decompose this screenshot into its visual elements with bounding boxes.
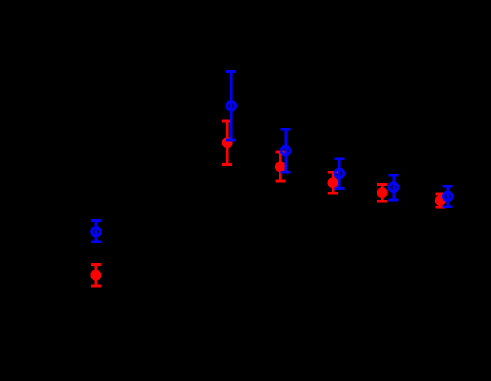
blue point 3 marker xyxy=(281,146,290,155)
red point 6 error bar xyxy=(435,194,445,207)
blue point 4 marker xyxy=(335,169,344,178)
red point 5 marker xyxy=(377,187,388,198)
red point 5 error bar xyxy=(377,185,387,202)
red point 3 error bar xyxy=(275,152,285,181)
red series: filled-circle markers with error bars xyxy=(90,121,445,286)
blue series: open-circle markers with error bars xyxy=(91,72,453,242)
red point 1 error bar xyxy=(91,264,101,286)
blue point 2 error bar xyxy=(226,72,236,141)
red point 2 marker xyxy=(222,137,233,148)
blue point 5 marker xyxy=(389,183,398,192)
red point 4 marker xyxy=(328,177,339,188)
blue point 6 error bar xyxy=(443,186,453,207)
red point 2 error bar xyxy=(222,121,232,164)
blue point 6 marker xyxy=(443,192,452,201)
blue point 4 error bar xyxy=(334,159,344,189)
blue point 3 error bar xyxy=(281,129,291,172)
red point 4 error bar xyxy=(328,172,338,193)
blue point 5 error bar xyxy=(389,175,399,200)
red point 1 marker xyxy=(90,270,101,281)
red point 3 marker xyxy=(275,161,286,172)
red point 6 marker xyxy=(435,195,446,206)
blue point 1 marker xyxy=(92,227,101,236)
blue point 1 error bar xyxy=(91,221,101,242)
blue point 2 marker xyxy=(227,101,236,110)
